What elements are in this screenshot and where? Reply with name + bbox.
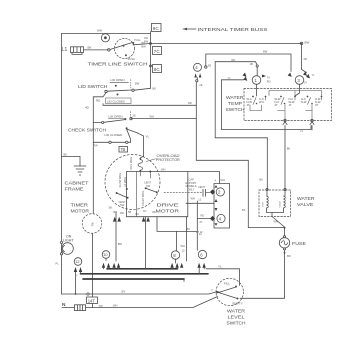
- svg-text:RD: RD: [188, 101, 192, 105]
- wire BK to cabinet ground: [62, 157, 81, 167]
- svg-text:BW: BW: [305, 41, 310, 45]
- start wdg label (rotated): [141, 191, 145, 206]
- capacitor C (export): [164, 191, 202, 193]
- svg-text:1T: 1T: [289, 103, 292, 107]
- wire BW upper run to temp switch: [206, 54, 291, 72]
- check switch contacts: [102, 121, 104, 123]
- svg-text:N-W: N-W: [301, 100, 307, 104]
- svg-text:WH: WH: [113, 303, 117, 307]
- terminal block (2/4): [214, 184, 230, 229]
- svg-text:LIGHT: LIGHT: [63, 238, 74, 242]
- svg-text:8C: 8C: [154, 67, 161, 72]
- wire fuse down and left to switch: [240, 250, 285, 298]
- overload protector coil: [139, 158, 141, 160]
- wire into block area: [186, 201, 214, 203]
- wire block 4 left: [197, 218, 210, 220]
- svg-text:2T: 2T: [275, 103, 278, 107]
- svg-text:SWITCH: SWITCH: [227, 321, 246, 326]
- svg-text:1D: 1D: [143, 209, 146, 213]
- cent sw lower label: [119, 200, 126, 204]
- wire feed to water valve: [215, 62, 267, 138]
- svg-text:TM: TM: [91, 223, 95, 227]
- timer line switch label: [88, 61, 149, 67]
- bus wire 2: [81, 273, 209, 275]
- junction node at fuse feed: [284, 227, 286, 229]
- svg-text:WH: WH: [221, 178, 225, 182]
- svg-text:WATER: WATER: [297, 196, 315, 201]
- temp switch bottom terminals: [284, 119, 286, 121]
- wire motor lead bus to terminal 8: [157, 217, 197, 251]
- valve terminals: [266, 188, 268, 190]
- wire YL into overload: [140, 156, 143, 158]
- connector triangles under 6: [197, 263, 205, 268]
- svg-text:WH: WH: [181, 244, 185, 248]
- svg-text:WATER: WATER: [227, 309, 246, 314]
- motor winding labels (rotated): [118, 173, 122, 188]
- svg-text:BK: BK: [88, 46, 92, 50]
- svg-text:PL: PL: [56, 262, 60, 266]
- cabinet frame label: [65, 181, 89, 187]
- svg-text:Y: Y: [211, 288, 213, 292]
- wire motor lead down to bus: [145, 217, 147, 269]
- svg-text:ONLY: ONLY: [188, 187, 195, 191]
- svg-text:SWITCH: SWITCH: [226, 107, 245, 112]
- wire 1 into box: [256, 67, 259, 96]
- check switch LID OPEN label: [109, 114, 123, 118]
- wire BK temp switch to valve: [284, 126, 286, 190]
- wire 12 to BY line: [75, 272, 77, 294]
- water level switch dashed circle: [216, 278, 243, 305]
- svg-text:4T: 4T: [247, 103, 250, 107]
- wire BU to water valve: [266, 138, 268, 190]
- svg-text:9C: 9C: [153, 26, 160, 31]
- drive motor (dashed circle): [105, 155, 160, 210]
- svg-text:INTERNAL TIMER BUSS: INTERNAL TIMER BUSS: [198, 27, 268, 33]
- node N: [62, 302, 66, 308]
- svg-text:SW: SW: [120, 203, 125, 207]
- wire WH line check switch output: [131, 118, 196, 120]
- svg-text:W-C: W-C: [259, 100, 264, 104]
- terminal box 9C: [152, 24, 162, 32]
- wire BK from L1: [84, 49, 109, 51]
- junction node at 8C: [150, 65, 152, 67]
- svg-text:SLOW WDG: SLOW WDG: [118, 173, 122, 188]
- wire motor box corner down: [186, 217, 188, 261]
- node PL label: [56, 262, 60, 266]
- svg-text:CENT: CENT: [119, 200, 126, 204]
- svg-text:YL: YL: [218, 265, 222, 269]
- svg-text:YL: YL: [300, 129, 304, 133]
- motor contacts: [126, 188, 128, 190]
- svg-text:BW: BW: [263, 49, 268, 53]
- drive motor terminal box: [127, 172, 220, 217]
- timer terminal 6: [198, 250, 206, 258]
- lid switch dashed bracket: [130, 80, 132, 89]
- check switch dashed bracket: [129, 112, 131, 118]
- svg-text:RD: RD: [232, 58, 236, 62]
- svg-text:BW: BW: [135, 82, 140, 86]
- motor bottom lead labels: [109, 206, 157, 217]
- terminal box 7B: [119, 147, 128, 153]
- timer motor label: [71, 203, 89, 209]
- timer terminal 12: [74, 258, 82, 266]
- ground (cabinet frame): [74, 166, 86, 175]
- motor internal vertical: [135, 172, 137, 217]
- lid switch LID OPEN label: [111, 78, 125, 82]
- svg-text:YL: YL: [146, 135, 150, 139]
- svg-text:RD: RD: [120, 211, 124, 215]
- timer terminal 1: [252, 76, 261, 85]
- svg-text:START WDG: START WDG: [141, 191, 145, 206]
- svg-text:EMPTY: EMPTY: [233, 302, 243, 306]
- svg-text:CENT: CENT: [198, 185, 205, 189]
- svg-text:VALVE: VALVE: [297, 202, 314, 207]
- svg-text:BK: BK: [287, 147, 291, 151]
- timer terminal 2: [216, 188, 224, 196]
- connector triangles under 10: [102, 263, 110, 268]
- svg-text:3B: 3B: [109, 206, 112, 210]
- wire top border WH: [62, 33, 151, 35]
- wire RD run to terminal 1: [215, 62, 257, 65]
- wire internal timer buss: [151, 43, 302, 45]
- svg-text:HI WDG: HI WDG: [123, 177, 127, 187]
- svg-text:TW: TW: [94, 144, 99, 148]
- wire YL down from check switch: [127, 129, 143, 156]
- wire 1E vertical from terminal 4: [196, 78, 198, 81]
- wire into check switch pivot: [93, 122, 101, 124]
- wire YL into temp switch 1: [221, 79, 244, 81]
- connector triangles at 3: [288, 73, 292, 77]
- svg-text:2T: 2T: [200, 220, 203, 224]
- svg-text:2B: 2B: [304, 57, 307, 61]
- wire from block vertical down to 6 area: [196, 203, 198, 250]
- check switch LID CLOSED label: [105, 133, 124, 137]
- water temp switch label: [226, 95, 244, 100]
- terminal box 14T: [87, 297, 98, 304]
- svg-text:CABINET: CABINET: [65, 181, 89, 187]
- svg-text:WH: WH: [150, 114, 154, 118]
- svg-text:BK: BK: [187, 227, 191, 231]
- terminal box 8C: [153, 65, 162, 73]
- bus wire 3: [83, 278, 184, 280]
- svg-text:5B: 5B: [128, 210, 131, 214]
- svg-text:SW: SW: [146, 184, 151, 188]
- svg-text:12: 12: [75, 259, 80, 264]
- svg-text:2Y: 2Y: [304, 81, 307, 85]
- overload protector label: [157, 154, 181, 158]
- svg-text:WH: WH: [97, 29, 102, 33]
- wire 3 into box: [295, 84, 300, 96]
- timer line switch contacts: [108, 49, 110, 51]
- svg-text:PROTECTOR: PROTECTOR: [156, 158, 181, 162]
- wire buss drop to 3: [302, 43, 307, 72]
- svg-text:BU: BU: [260, 178, 264, 182]
- wire 12 right triangle to bus: [80, 272, 82, 274]
- L1 plug connector: [71, 47, 84, 53]
- junction node at buss: [150, 43, 152, 45]
- wire 7B to timer motor: [92, 142, 94, 213]
- svg-text:Y: Y: [76, 274, 78, 278]
- bus wire 1: [107, 268, 178, 270]
- on light label: [66, 234, 72, 238]
- terminal box 7C: [153, 47, 162, 55]
- temp switch contacts: [247, 97, 321, 107]
- svg-text:BK: BK: [64, 152, 68, 156]
- water valve dashed box: [259, 190, 291, 217]
- on light lamp: [62, 243, 74, 255]
- svg-text:YL: YL: [312, 73, 316, 77]
- svg-text:N: N: [62, 302, 66, 308]
- temp switch top jumper: [269, 91, 322, 96]
- svg-text:2E: 2E: [133, 114, 136, 118]
- wire left border (WH neutral side): [61, 34, 63, 295]
- svg-text:TEMP: TEMP: [228, 101, 242, 106]
- water temp switch dashed box: [244, 89, 332, 121]
- svg-text:7C: 7C: [154, 49, 161, 54]
- timer terminal 10: [102, 251, 110, 259]
- timer terminal 4 (near temp switch): [194, 63, 202, 71]
- svg-text:BK: BK: [153, 87, 157, 91]
- drive motor label: [157, 203, 180, 209]
- wire BK to buss node: [133, 44, 151, 45]
- svg-text:LEVEL: LEVEL: [228, 315, 246, 320]
- wire YL bus to water level switch: [206, 269, 240, 286]
- wire N neutral line: [62, 297, 218, 308]
- timer motor (dashed circle): [82, 214, 102, 234]
- internal timer buss arrow and label: [183, 28, 196, 30]
- connector triangles at 1: [243, 73, 248, 81]
- wire timer buss vertical: [150, 32, 152, 89]
- svg-text:2T 12: 2T 12: [196, 230, 203, 234]
- timer terminal 4 (block): [217, 214, 225, 222]
- timer terminal 8: [171, 251, 179, 259]
- svg-text:COLD: COLD: [280, 201, 282, 207]
- connector triangles under 12: [74, 267, 82, 272]
- svg-text:1B: 1B: [250, 62, 253, 66]
- water level switch contacts: [224, 282, 230, 286]
- svg-text:RD: RD: [153, 210, 157, 214]
- water valve label: [297, 196, 315, 201]
- svg-text:BR: BR: [287, 254, 291, 258]
- wire 7B line: [93, 141, 130, 143]
- svg-text:L1: L1: [62, 47, 68, 53]
- node WH label top: [97, 29, 102, 33]
- svg-text:WH: WH: [274, 220, 278, 224]
- svg-text:LID CLOSED: LID CLOSED: [107, 99, 126, 103]
- svg-text:LID SWITCH: LID SWITCH: [78, 84, 108, 90]
- svg-text:BY: BY: [122, 290, 126, 294]
- svg-text:PULL: PULL: [134, 38, 141, 42]
- svg-text:BW: BW: [142, 45, 147, 49]
- node buss right end: [300, 42, 302, 44]
- wire lid switch pivot down-left 4D: [93, 93, 106, 143]
- svg-text:WATER: WATER: [226, 95, 244, 100]
- valve solenoid coils: [267, 196, 269, 208]
- timer line switch cam (dashed circle): [115, 39, 135, 59]
- svg-text:BU: BU: [114, 210, 118, 214]
- wire YL return from temp switch: [221, 80, 311, 130]
- svg-text:BK: BK: [136, 212, 140, 216]
- connector triangles under terminal 4: [194, 73, 201, 77]
- wire RD line lid-closed feed: [103, 104, 196, 106]
- svg-text:FILL: FILL: [224, 282, 230, 286]
- connector triangles under 8: [170, 263, 183, 268]
- motor lead triangles below box: [113, 217, 121, 222]
- svg-text:TW: TW: [99, 304, 104, 308]
- timer terminal 3: [295, 76, 304, 85]
- motor lead BW to triangles right of 10: [115, 212, 117, 261]
- lid switch contacts: [105, 90, 107, 92]
- svg-text:LID CLOSED: LID CLOSED: [105, 133, 124, 137]
- svg-text:DRIVE: DRIVE: [157, 203, 180, 209]
- svg-text:MOTOR: MOTOR: [156, 209, 180, 215]
- terminal screw on top border: [101, 34, 109, 42]
- svg-text:PUSH: PUSH: [128, 57, 135, 61]
- svg-text:FRAME: FRAME: [65, 186, 84, 192]
- svg-text:RUN WDG: RUN WDG: [129, 157, 133, 170]
- svg-text:YL: YL: [228, 76, 232, 80]
- svg-text:CHECK SWITCH: CHECK SWITCH: [68, 127, 107, 133]
- svg-text:10: 10: [103, 252, 108, 257]
- wire timer motor down to N line: [92, 233, 94, 307]
- svg-text:2B: 2B: [208, 64, 211, 68]
- lid switch LID CLOSED boxed label: [106, 98, 132, 104]
- svg-text:LID OPEN: LID OPEN: [109, 114, 123, 118]
- svg-text:BK: BK: [142, 41, 146, 45]
- N plug connector: [75, 305, 86, 311]
- svg-text:RD: RD: [267, 80, 271, 84]
- connector diamonds at block: [210, 189, 215, 221]
- svg-text:BW: BW: [118, 242, 123, 246]
- svg-text:HOT: HOT: [263, 201, 265, 206]
- fuse: [248, 228, 284, 236]
- svg-text:7A: 7A: [267, 75, 270, 79]
- temp switch bottom jumpers: [250, 105, 312, 111]
- lid switch label: [78, 84, 108, 90]
- check switch label: [68, 127, 107, 133]
- svg-text:WH: WH: [191, 197, 195, 201]
- svg-text:14T: 14T: [88, 299, 96, 304]
- wire BY line: [62, 292, 218, 295]
- wire WH into block top: [215, 179, 217, 183]
- cent sw label: [144, 180, 151, 184]
- svg-text:WH: WH: [161, 168, 165, 172]
- svg-text:BK: BK: [242, 208, 246, 212]
- svg-text:7B: 7B: [120, 147, 125, 152]
- node 2B terminal: [205, 66, 207, 68]
- svg-text:1E: 1E: [199, 83, 202, 87]
- cap export models label: [186, 178, 197, 192]
- wire valve bottom to fuse: [267, 208, 284, 213]
- svg-text:CENT: CENT: [144, 180, 151, 184]
- node 1B label: [250, 62, 253, 66]
- node L1: [62, 47, 68, 53]
- wire BW lid switch to buss: [134, 88, 150, 90]
- svg-text:3T: 3T: [315, 103, 318, 107]
- wire vertical feed down to fuse node: [196, 82, 248, 228]
- svg-text:RD: RD: [201, 214, 205, 218]
- svg-text:TIMER LINE SWITCH: TIMER LINE SWITCH: [88, 61, 149, 67]
- svg-text:MOTOR: MOTOR: [71, 208, 90, 214]
- svg-text:FUSE: FUSE: [292, 241, 306, 246]
- water level switch label: [227, 309, 246, 314]
- svg-text:TIMER: TIMER: [71, 203, 89, 209]
- wire check switch lower contact to 7B line: [127, 129, 131, 142]
- svg-text:LID OPEN: LID OPEN: [111, 78, 125, 82]
